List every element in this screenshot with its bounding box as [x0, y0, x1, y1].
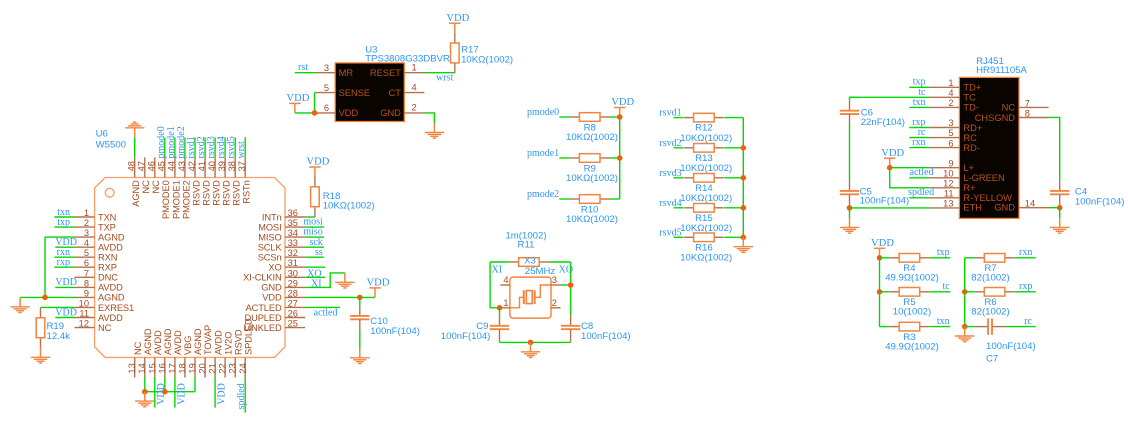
svg-text:spdled: spdled: [236, 383, 247, 409]
svg-text:L+: L+: [963, 163, 974, 173]
svg-text:rc: rc: [1024, 316, 1032, 327]
svg-text:RESET: RESET: [370, 68, 401, 78]
svg-text:ETH: ETH: [963, 203, 982, 213]
svg-text:49.9Ω(1002): 49.9Ω(1002): [885, 273, 939, 284]
wire net rsvd2 (U6 top pin): [204, 137, 206, 157]
svg-text:TXN: TXN: [98, 212, 116, 222]
resistor R15: [684, 204, 724, 213]
wire net txn (U6 pin 1): [54, 216, 74, 218]
wire C9 top: [499, 308, 501, 316]
svg-text:3: 3: [552, 275, 557, 285]
RJ451 pin 4 TC: [929, 88, 976, 103]
svg-text:2: 2: [412, 103, 417, 113]
svg-text:4: 4: [503, 275, 508, 285]
svg-text:TOVAP: TOVAP: [203, 325, 213, 355]
wire R16 to rail: [724, 236, 743, 238]
wire net VDD (U6 pin 8): [55, 286, 74, 288]
svg-text:7: 7: [84, 268, 89, 278]
svg-text:2: 2: [84, 218, 89, 228]
svg-text:10KΩ(1002): 10KΩ(1002): [680, 163, 732, 174]
power flag VDD (U3): [286, 93, 309, 113]
svg-text:16: 16: [157, 363, 167, 373]
wire C10 top: [359, 297, 361, 306]
svg-text:9: 9: [948, 158, 953, 168]
wire net txp (R4): [929, 257, 950, 259]
U6 pin 43 PMODE2: [177, 157, 192, 219]
resistor R7: [975, 254, 1015, 263]
svg-text:43: 43: [177, 161, 187, 171]
wire net wrst (U6 top pin): [244, 137, 246, 157]
svg-text:4: 4: [412, 82, 417, 92]
wire R15 to rail: [724, 207, 743, 209]
svg-text:42: 42: [187, 161, 197, 171]
svg-text:3: 3: [324, 63, 329, 73]
svg-text:AGND: AGND: [98, 232, 125, 242]
ground (C10): [350, 348, 369, 363]
wire R6 left: [965, 291, 975, 293]
ground (C5): [840, 218, 859, 233]
U6 pin 34 MISO: [258, 228, 305, 242]
svg-text:10KΩ(1002): 10KΩ(1002): [680, 253, 732, 264]
svg-text:VDD: VDD: [55, 277, 77, 288]
svg-text:5: 5: [324, 83, 329, 93]
svg-text:rsvd3: rsvd3: [659, 168, 681, 179]
junction RJ451 VDD: [887, 165, 893, 171]
RJ451 pin 3 RD+: [929, 118, 982, 133]
svg-text:txp: txp: [937, 247, 950, 258]
junction R5/VDD: [877, 289, 883, 295]
svg-text:VDD: VDD: [611, 97, 634, 108]
svg-text:9: 9: [84, 288, 89, 298]
wire net pmode2: [559, 198, 570, 200]
RJ451 pin 13 ETH: [929, 199, 982, 213]
wire C8 bottom: [570, 339, 572, 342]
svg-text:VDD: VDD: [176, 383, 187, 405]
svg-text:14: 14: [137, 363, 147, 373]
wire U3 pin 6 VDD row: [295, 112, 315, 114]
svg-text:10: 10: [79, 298, 89, 308]
wire net VDD (U6 pin 4): [55, 246, 74, 248]
wire net ss (U6 pin 32): [305, 256, 324, 258]
U6 pin 8 AVDD: [75, 278, 124, 292]
power flag VDD (C10): [367, 278, 390, 298]
wire R7 left: [965, 257, 975, 259]
wire net rsvd4: [674, 207, 684, 209]
resistor R3: [890, 322, 930, 331]
svg-text:100nF(104): 100nF(104): [986, 341, 1036, 352]
wire net tc (R5): [929, 291, 950, 293]
svg-text:C7: C7: [986, 354, 998, 365]
wire net miso (U6 pin 34): [305, 236, 324, 238]
svg-text:VDD: VDD: [881, 148, 904, 159]
svg-text:VDD: VDD: [156, 383, 167, 405]
svg-text:PMODE0: PMODE0: [161, 180, 171, 219]
wire net rsvd4 (U6 top pin): [224, 137, 226, 157]
ground (U6 pin 29): [335, 273, 354, 288]
wire C6 top corner: [850, 97, 861, 100]
svg-text:4: 4: [948, 88, 953, 98]
U6 pin 15 AVDD: [147, 330, 163, 378]
svg-text:8: 8: [84, 278, 89, 288]
U6 pin 30 XI-CLKIN: [243, 268, 305, 282]
RJ451 pin 2 TD-: [929, 98, 979, 113]
svg-text:24: 24: [238, 363, 248, 373]
svg-text:EXRES1: EXRES1: [98, 303, 134, 313]
svg-text:VDD: VDD: [367, 278, 390, 289]
U6 pin 23 RSVD: [228, 329, 244, 377]
svg-text:RD-: RD-: [963, 143, 980, 153]
resistor R19: [36, 307, 45, 348]
U6 pin 33 SCLK: [258, 238, 305, 252]
capacitor C10: [350, 306, 369, 329]
svg-text:U6: U6: [96, 128, 108, 139]
svg-text:22: 22: [218, 363, 228, 373]
junction U3 VDD/SENSE: [312, 110, 318, 116]
junction C5/ETH: [847, 205, 853, 211]
capacitor C9: [490, 316, 509, 339]
wire XO vertical: [570, 262, 572, 316]
U6 pin 41 RSVD: [197, 157, 212, 205]
wire net XI (U6 pin 30): [305, 276, 325, 278]
svg-text:100nF(104): 100nF(104): [370, 326, 420, 337]
U6 pin 24 SPDLED: [238, 318, 254, 377]
svg-text:L-GREEN: L-GREEN: [963, 173, 1004, 183]
svg-text:10: 10: [943, 168, 953, 178]
svg-text:VDD: VDD: [339, 108, 359, 118]
svg-text:3: 3: [84, 228, 89, 238]
svg-text:RSTn: RSTn: [242, 180, 252, 203]
svg-text:40: 40: [207, 161, 217, 171]
svg-text:tc: tc: [942, 281, 950, 292]
power flag VDD (R18): [306, 157, 329, 177]
svg-text:10(1002): 10(1002): [893, 307, 931, 318]
U6 pin 22 1V2O: [218, 332, 234, 378]
U6 pin 17 AVDD: [167, 330, 183, 378]
U6 pin 21 AVDD: [208, 330, 224, 378]
junction R9/rail: [617, 155, 623, 161]
wire crystal pin 1 to XI vertical: [490, 307, 502, 309]
svg-text:XO: XO: [559, 264, 573, 275]
capacitor C4: [1050, 181, 1069, 204]
svg-text:X3: X3: [524, 256, 536, 267]
wire net sck (U6 pin 33): [305, 246, 324, 248]
U6 pin 9 AGND: [75, 288, 125, 302]
wire net rsvd3: [674, 177, 684, 179]
svg-text:ACTLED: ACTLED: [246, 303, 282, 313]
resistor R5: [890, 288, 930, 297]
resistor R13: [684, 144, 724, 153]
svg-text:rst: rst: [298, 62, 308, 73]
RJ451 pin 5 RC: [929, 128, 977, 143]
wire SENSE-VDD vertical: [314, 93, 316, 113]
svg-text:45: 45: [157, 161, 167, 171]
resistor R4: [890, 254, 930, 263]
svg-text:VDD: VDD: [446, 13, 469, 24]
svg-text:6: 6: [84, 258, 89, 268]
RJ451 pin 8 CHSGND: [975, 109, 1049, 123]
wire VDD down to RJ451 pin 12: [890, 168, 930, 188]
wire net rxn (RJ451): [909, 147, 929, 149]
svg-text:VDD: VDD: [217, 383, 228, 405]
wire VDD rail (pmode): [619, 117, 621, 199]
wire crystal pin 3 to XO vertical: [561, 284, 571, 286]
svg-text:30: 30: [288, 268, 298, 278]
connector RJ451 HR911105A body: [959, 77, 1019, 218]
svg-text:1: 1: [503, 298, 508, 308]
svg-text:actled: actled: [314, 308, 338, 319]
U6 pin 42 RSVD: [187, 157, 202, 205]
svg-text:RSVD: RSVD: [233, 329, 243, 355]
wire C6 bottom to C5 top: [849, 124, 851, 181]
wire R11 right: [549, 261, 571, 263]
svg-text:RC: RC: [963, 133, 977, 143]
power flag VDD (termination): [871, 238, 894, 258]
svg-text:13: 13: [943, 199, 953, 209]
svg-text:rsvd4: rsvd4: [659, 198, 681, 209]
svg-text:10KΩ(1002): 10KΩ(1002): [566, 132, 618, 143]
svg-text:7: 7: [1025, 98, 1030, 108]
IC U3 TPS3808G33DBVR body: [335, 63, 404, 122]
wire net txn (R3): [929, 326, 950, 328]
junction rsvd rail: [741, 175, 747, 181]
svg-text:1: 1: [412, 63, 417, 73]
wire U6 pin 9 AGND row: [20, 296, 74, 298]
svg-text:10KΩ(1002): 10KΩ(1002): [566, 173, 618, 184]
U6 pin 27 ACTLED: [246, 298, 306, 312]
ground (R19): [31, 348, 50, 363]
svg-text:13: 13: [127, 363, 137, 373]
U6 pin 19 AGND: [188, 328, 204, 377]
junction pin3/pin9 ground rail: [42, 295, 48, 301]
wire C4 ground drop: [1059, 208, 1061, 218]
ground (rsvd rail): [734, 237, 753, 252]
svg-text:23: 23: [228, 363, 238, 373]
RJ451 pin 14 GND: [994, 199, 1048, 213]
U6 pin 18 VBG: [177, 336, 193, 378]
U6 pin 16 AGND: [157, 328, 173, 377]
ground (left rail): [10, 297, 29, 312]
wire U6 pin 16 AGND down: [164, 378, 166, 392]
ground (termination): [955, 327, 974, 342]
svg-text:NC: NC: [133, 341, 143, 355]
svg-text:R+: R+: [963, 183, 975, 193]
power flag VDD (pmode rail): [611, 97, 634, 117]
svg-text:1: 1: [84, 208, 89, 218]
svg-text:VBG: VBG: [183, 336, 193, 355]
crystal X3 body: [510, 277, 551, 318]
U6 pin 45 PMODE0: [157, 157, 172, 219]
svg-text:100nF(104): 100nF(104): [860, 196, 910, 207]
svg-text:25MHz: 25MHz: [525, 266, 556, 277]
U6 pin 44 PMODE1: [167, 157, 182, 219]
svg-text:tc: tc: [918, 87, 926, 98]
svg-text:AVDD: AVDD: [153, 330, 163, 355]
junction rsvd rail: [741, 235, 747, 241]
junction crystal ground: [528, 340, 534, 346]
svg-text:4: 4: [84, 238, 89, 248]
wire net rxn (R7): [1015, 257, 1036, 259]
wire U6 pin 28 VDD: [305, 296, 375, 298]
resistor R9: [570, 154, 610, 163]
svg-text:29: 29: [288, 278, 298, 288]
wire net rxp (R6): [1015, 291, 1036, 293]
wire U6 pin 29 GND to ground: [305, 273, 345, 288]
svg-text:NC: NC: [98, 323, 112, 333]
RJ451 pin 6 RD-: [929, 138, 980, 153]
U6 pin 32 SCSn: [258, 248, 305, 262]
svg-text:INTn: INTn: [262, 212, 282, 222]
svg-text:1: 1: [948, 78, 953, 88]
svg-text:12: 12: [79, 319, 89, 329]
svg-text:VDD: VDD: [262, 293, 282, 303]
IC U6 W5500 body: [95, 178, 285, 358]
svg-text:actled: actled: [910, 167, 934, 178]
RJ451 pin 11 R-YELLOW: [929, 189, 1012, 204]
ground (crystal): [521, 342, 540, 357]
svg-text:AGND: AGND: [193, 328, 203, 355]
ground (U6 bottom): [135, 392, 154, 407]
svg-text:XI: XI: [492, 264, 503, 275]
resistor R10: [570, 195, 610, 204]
power flag VDD (RJ451): [881, 148, 904, 168]
U3 pin 4 CT: [388, 82, 424, 98]
wire net XO (U6 pin 31): [305, 266, 325, 268]
svg-text:2: 2: [552, 298, 557, 308]
svg-text:rsvd2: rsvd2: [659, 138, 681, 149]
svg-text:19: 19: [188, 363, 198, 373]
svg-text:35: 35: [288, 218, 298, 228]
svg-text:2: 2: [948, 98, 953, 108]
crystal pin 3: [551, 275, 561, 285]
junction C9/XI: [497, 305, 503, 311]
svg-text:rxp: rxp: [57, 257, 70, 268]
resistor R12: [684, 113, 724, 122]
svg-text:rxp: rxp: [1019, 281, 1032, 292]
wire net pmode2 (U6 top pin): [184, 137, 186, 157]
wire VDD rail (termination): [879, 258, 881, 327]
wire RJ451 pin 8 CHSGND to C4: [1049, 117, 1060, 180]
U6 pin 1 TXN: [75, 208, 117, 222]
svg-text:VDD: VDD: [55, 307, 77, 318]
wire C7 left: [965, 326, 975, 328]
svg-text:SCSn: SCSn: [258, 253, 282, 263]
svg-text:5: 5: [84, 248, 89, 258]
resistor R16: [684, 233, 724, 242]
svg-text:46: 46: [147, 161, 157, 171]
capacitor C5: [840, 181, 859, 204]
svg-text:22nF(104): 22nF(104): [861, 117, 905, 128]
junction rsvd rail: [741, 145, 747, 151]
RJ451 pin 10 L-GREEN: [929, 168, 1005, 183]
svg-text:GND: GND: [380, 108, 401, 118]
svg-text:rxn: rxn: [1019, 247, 1032, 258]
RJ451 pin 1 TD+: [929, 78, 981, 93]
svg-text:RXP: RXP: [98, 263, 117, 273]
wire net actled (RJ451 pin 10): [909, 177, 929, 179]
power flag VDD (R17): [446, 13, 469, 33]
svg-text:RSVD: RSVD: [191, 180, 201, 206]
U6 pin 5 RXN: [75, 248, 118, 262]
svg-text:AVDD: AVDD: [98, 243, 123, 253]
wire U6 pin 19 AGND down: [194, 378, 196, 392]
svg-text:RSVD: RSVD: [202, 180, 212, 206]
svg-text:RSVD: RSVD: [222, 180, 232, 206]
svg-text:10KΩ(1002): 10KΩ(1002): [680, 133, 732, 144]
svg-text:48: 48: [127, 161, 137, 171]
wire net rsvd5 (U6 top pin): [234, 137, 236, 157]
wire crystal bottom rail: [500, 341, 571, 343]
svg-text:44: 44: [167, 161, 177, 171]
wire U6 pin 36 INTn to R18: [305, 216, 315, 218]
svg-text:RSVD: RSVD: [212, 180, 222, 206]
U3 pin 6 VDD: [315, 103, 358, 118]
wire bottom ground rail: [145, 391, 195, 393]
wire C5 bottom: [849, 204, 851, 218]
svg-text:NC: NC: [141, 180, 151, 194]
svg-text:39: 39: [217, 161, 227, 171]
U6 pin 37 RSTn: [237, 157, 252, 203]
wire net rxn (U6 pin 5): [54, 256, 74, 258]
resistor R17: [451, 33, 460, 73]
svg-text:AGND: AGND: [143, 328, 153, 355]
svg-text:82(1002): 82(1002): [971, 273, 1009, 284]
svg-text:5: 5: [948, 128, 953, 138]
svg-text:47: 47: [137, 161, 147, 171]
wire net rc (C7): [1005, 326, 1036, 328]
wire R10 to VDD rail: [610, 198, 620, 200]
RJ451 pin 7 NC: [1002, 98, 1049, 112]
wire R5 left: [880, 291, 890, 293]
wire net VDD (U6 bottom pin 17): [174, 378, 176, 408]
junction C10: [357, 295, 363, 301]
wire net rc (RJ451): [909, 137, 929, 139]
wire C4 bottom to pin 14: [1059, 204, 1061, 207]
U3 pin 1 RESET: [370, 63, 425, 79]
svg-text:100nF(104): 100nF(104): [441, 331, 491, 342]
wire net tc (RJ451 pin 4) to C6: [850, 96, 930, 98]
svg-text:41: 41: [197, 161, 207, 171]
svg-text:AGND: AGND: [131, 180, 141, 207]
svg-text:11: 11: [79, 309, 89, 319]
crystal pin 1: [502, 298, 510, 308]
wire U6 pin 3 AGND to ground rail: [45, 236, 75, 238]
ground (C4): [1050, 218, 1069, 233]
resistor R14: [684, 174, 724, 183]
U6 pin 47 NC: [137, 157, 152, 193]
U6 pin 3 AGND: [75, 228, 125, 242]
junction pin16 ground: [162, 389, 168, 395]
svg-text:MISO: MISO: [258, 232, 281, 242]
svg-text:11: 11: [944, 189, 954, 199]
crystal pin 2: [551, 298, 561, 308]
resistor R11: [509, 258, 549, 267]
svg-text:49.9Ω(1002): 49.9Ω(1002): [885, 341, 939, 352]
RJ451 pin 12 R+: [929, 179, 975, 194]
wire net actled (U6 pin 27): [305, 306, 340, 308]
svg-text:15: 15: [147, 363, 157, 373]
svg-text:AVDD: AVDD: [213, 330, 223, 355]
wire net pmode0 (U6 top pin): [164, 137, 166, 157]
wire ground rail (rsvd): [742, 118, 744, 238]
resistor R8: [570, 113, 610, 122]
wire R11 left: [490, 261, 509, 263]
svg-text:VDD: VDD: [306, 157, 329, 168]
wire net rsvd2: [674, 147, 684, 149]
capacitor C8: [561, 316, 580, 339]
wire R9 to VDD rail: [610, 157, 620, 159]
wire R12 to rail: [724, 117, 743, 119]
U6 pin 28 VDD: [262, 288, 305, 302]
